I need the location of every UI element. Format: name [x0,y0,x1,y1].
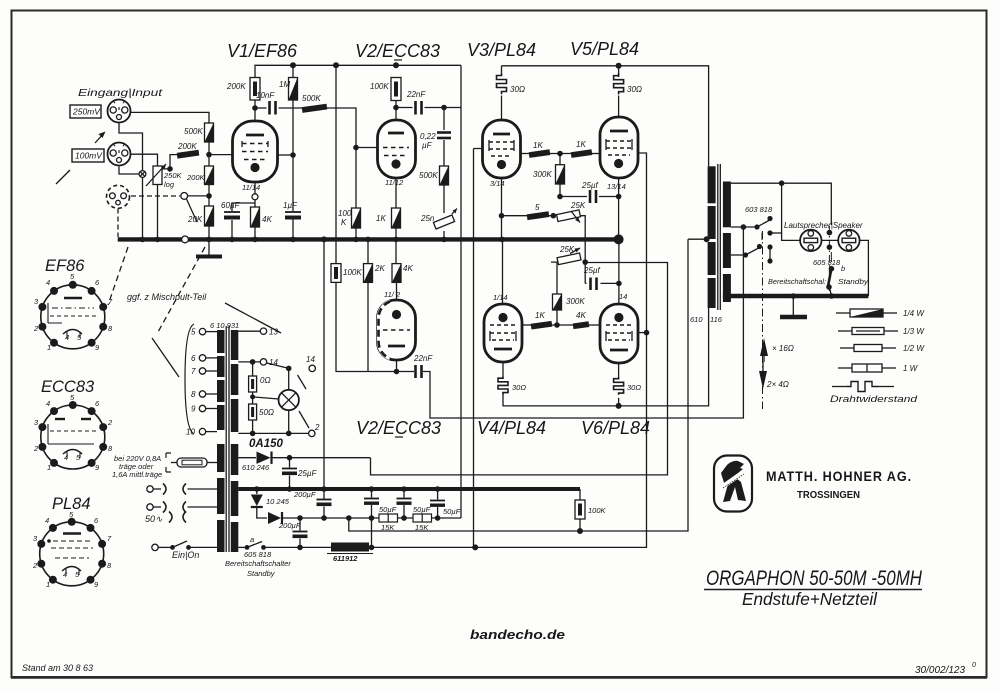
node V2 anode [393,105,399,111]
svg-text:100: 100 [338,209,352,218]
legend one W [838,367,852,369]
node 200uF1 bottom [321,515,327,521]
diode 10245 vertical [256,489,258,494]
potentiometer 250K log [153,166,162,185]
terminal pin 8 [206,393,218,395]
label box 100mV [72,149,104,162]
svg-text:25µF: 25µF [297,469,318,478]
wire 25K no1 out corner x=585 [581,216,585,284]
wire secondary tap3 to switch [731,254,745,256]
wire 25uF no2 row [585,282,586,284]
pin numbers EF86 [33,272,113,352]
wire rectifier OA150 row [238,457,256,459]
svg-text:300K: 300K [533,170,552,179]
svg-text:ggf. z Mischpult-Teil: ggf. z Mischpult-Teil [127,292,207,302]
svg-text:25µf: 25µf [581,181,599,190]
wire grid row to V1 [209,154,233,156]
svg-text:MATTH. HOHNER AG.: MATTH. HOHNER AG. [766,468,912,484]
wire lamp top stem [288,368,290,389]
switch Ein On [152,544,158,550]
node speaker link bottom [827,244,833,250]
svg-text:500K: 500K [184,127,203,136]
svg-text:Drahtwiderstand: Drahtwiderstand [830,394,918,404]
svg-text:Ein|On: Ein|On [172,550,199,560]
svg-text:3/14: 3/14 [490,179,505,188]
svg-text:25K: 25K [559,245,575,254]
power transformer primary windings [217,330,225,353]
output transformer core [717,164,719,310]
tube V5 envelope [600,117,638,178]
svg-text:1µF: 1µF [283,201,298,210]
svg-text:10 245: 10 245 [266,497,290,506]
tube V1 grids [242,143,268,145]
capacitor 200uF no2 [299,518,301,531]
resistor 4K splitter [392,264,401,283]
svg-text:100K: 100K [343,268,362,277]
svg-text:22nF: 22nF [406,90,426,99]
svg-text:2K: 2K [374,264,385,273]
svg-text:50µF: 50µF [413,505,431,514]
tube V2 lower envelope inverted [378,300,416,360]
wire 500K-200K node to V1 grid [208,142,210,166]
wire feedback down column [782,183,801,240]
node V2 grid [353,145,359,151]
wire screen stub [278,154,293,156]
node 200uF2 top [297,515,303,521]
wire V5 plate 30R [618,66,620,77]
svg-text:2: 2 [314,423,320,432]
node heater return [250,431,256,437]
svg-text:6: 6 [191,354,196,363]
wire between speakers [822,239,839,241]
wire V2 anode column [395,101,397,121]
svg-text:4: 4 [45,516,49,525]
legend half W [840,347,854,349]
node feedback takeoff [779,180,785,186]
resistor 500K coupling wedge [302,104,328,113]
resistor 30R V5 [614,73,624,94]
svg-text:6 10 931: 6 10 931 [210,321,239,330]
svg-text:4K: 4K [576,311,586,320]
node screen row [557,151,563,157]
pilot lamp [279,390,299,410]
mains connector row2 [147,504,153,510]
capacitor 50uF c [435,486,441,492]
svg-text:50µF: 50µF [379,505,397,514]
tube V4 cathode dot [498,313,507,322]
tube V4 grids [490,324,516,326]
node standby b bus [829,293,835,299]
svg-text:11/ 2: 11/ 2 [384,290,401,299]
node feedback line join [741,224,747,230]
svg-text:603 818: 603 818 [745,205,773,214]
resistor 30R V6 [614,377,624,395]
wire V6 anode to 30R [618,363,620,377]
svg-text:7: 7 [191,367,196,376]
resistor 500K tone [440,166,449,185]
tube V6 anode bar [610,349,628,352]
svg-text:250mV: 250mV [72,107,101,117]
node bus end V5 cathode [614,234,624,244]
arrow 16 ohm [760,338,768,356]
resistor 50R box [252,392,254,404]
svg-text:10: 10 [186,428,195,437]
wire 2K bias drop x=368 [367,282,369,371]
svg-text:22nF: 22nF [413,354,433,363]
wire speaker right out [860,240,869,296]
arrow input 2 [95,133,104,143]
svg-text:100K: 100K [370,82,389,91]
node 1uF bus [290,237,296,243]
svg-text:TROSSINGEN: TROSSINGEN [797,489,860,501]
capacitor 22nF [414,101,417,115]
terminal pin 5 [206,331,218,333]
wire ground bus main [118,237,619,241]
node heater diode tap [254,486,260,492]
svg-text:V5/PL84: V5/PL84 [570,39,639,59]
node gnd stem [791,293,797,299]
svg-text:50µF: 50µF [443,507,461,516]
svg-text:1/4 W: 1/4 W [903,309,925,318]
legend wirewound [832,386,847,388]
wire OT primary CT feed x=688 [688,238,707,240]
resistor 100K V2 anode box [391,78,401,101]
resistor 4K V6 grid wedge [573,321,590,329]
svg-text:2: 2 [32,561,38,570]
resistor 1K screen V3 wedge [529,149,551,158]
wire 500K out to corner x=356 [327,108,356,148]
potentiometer 25K no1 [557,210,581,222]
terminal pin 10 [206,431,218,433]
svg-text:a: a [250,535,254,544]
svg-text:1K: 1K [535,311,545,320]
mischpult dashed boundary lines [158,247,205,332]
terminal pin 9 [206,408,218,410]
wire heater return row [238,432,308,434]
wire 60uF branch [232,203,255,211]
wire lamp feed [267,363,289,368]
wire PSU ground link x=324 [323,239,325,489]
wire 1uF to bus [292,219,294,239]
node 22nF out [441,105,447,111]
svg-text:4: 4 [46,399,50,408]
wire screen row V3 V5 [521,153,530,155]
svg-text:1M: 1M [279,80,290,89]
speaker connector right [838,230,859,251]
svg-text:Eingang|Input: Eingang|Input [78,87,163,99]
wire splitter loop y=474.9 [371,263,668,475]
node V1 grid [206,152,212,158]
node V5 25uF junction [616,194,622,200]
resistor 1K screen V5 wedge [571,149,593,158]
wire V4 V6 grid row [522,324,532,326]
tube V4 anode bar [494,348,512,351]
svg-text:0A150: 0A150 [249,438,283,450]
svg-text:13/14: 13/14 [607,182,626,191]
svg-text:bandecho.de: bandecho.de [470,627,565,642]
svg-text:1/14: 1/14 [493,293,508,302]
wire bias line y=518 [282,517,461,519]
node lamp top [286,366,292,372]
choke 611912 [331,543,369,552]
svg-text:30Ω: 30Ω [510,85,525,94]
node heater x=475 [472,544,478,550]
node 444 bus [441,237,447,243]
switch 603818 lower [743,252,748,257]
speaker connector left [800,230,821,251]
svg-text:605 818: 605 818 [244,550,272,559]
terminal open 2 [309,430,315,436]
svg-text:V2/ECC83: V2/ECC83 [356,418,441,438]
svg-text:2: 2 [33,324,39,333]
svg-text:11/14: 11/14 [242,183,260,192]
terminal chassis circle [139,171,146,178]
pin labels power transformer [186,328,320,437]
wire divider chain [208,185,210,207]
svg-text:Standby: Standby [247,569,276,578]
tube V1 EF86 envelope [233,121,278,182]
pin numbers ECC83 [33,393,113,472]
svg-text:60µF: 60µF [221,201,241,210]
fuse brackets [166,453,171,472]
switch lever lamp bottom [299,411,309,428]
resistor 200K input divider [205,166,214,185]
svg-text:V6/PL84: V6/PL84 [581,418,650,438]
potentiometer 25K no2 [557,253,581,265]
resistor 1K V2 cathode [392,208,401,228]
resistor 100K box below bus [331,264,341,283]
svg-text:30/002/123: 30/002/123 [915,665,965,676]
node V6 right side stub [644,330,650,336]
wire bus489 end corner to 100K [579,489,581,500]
connector DIN input 1 [108,100,131,123]
svg-text:200K: 200K [186,173,206,182]
wire V3 cathode to bus to V4 [502,178,503,304]
svg-text:300K: 300K [566,297,585,306]
node V3V4 bus [499,237,505,243]
wire 4K to lower V2 cathode [396,282,398,300]
svg-text:1: 1 [47,463,51,472]
svg-text:V3/PL84: V3/PL84 [467,40,536,60]
svg-text:200µF: 200µF [293,490,316,499]
tube V2l anode bar [388,345,405,348]
capacitor 60uF [224,211,240,213]
wire 22nF out short link [444,107,461,109]
node shield bus [140,237,146,243]
dashdot link speakers [828,226,830,292]
wire secondary tap2 to switch [731,226,757,228]
svg-text:500K: 500K [302,94,321,103]
terminal open 14 right [309,365,315,371]
resistor 30R V4 [498,377,508,395]
svg-text:1: 1 [46,580,50,589]
wire V6 grid feed x=646 [475,153,646,547]
wire 4K below bus [395,239,397,263]
hohner logo bird [721,461,744,483]
hohner logo frame [714,456,752,512]
wire 100K drop x=356 [355,148,357,209]
svg-text:25n: 25n [420,214,435,223]
terminal pin 7 [206,370,218,372]
resistor 100K screen supply box [575,500,585,519]
ground speaker [792,296,794,315]
wire grid stub V2 [356,147,378,149]
arrow 4 ohm [759,371,767,389]
fuse holder [177,458,207,467]
power transformer secondary windings [231,330,239,360]
svg-text:Bereitschaftschal:: Bereitschaftschal: [768,277,826,286]
wire V1 anode node [254,100,256,121]
svg-text:610 246: 610 246 [242,463,270,472]
svg-text:200µF: 200µF [278,521,301,530]
capacitor 200uF no1 [317,499,332,501]
svg-text:610: 610 [690,315,703,324]
node B+ filter takeoff [346,515,352,521]
svg-text:14: 14 [269,358,278,367]
svg-text:2: 2 [33,444,39,453]
wire heater line to PSU [369,546,475,548]
wire OA150 out [272,457,371,459]
node grid V1 divider [206,193,212,199]
tube socket EF86 [38,281,107,349]
mains connector row3 arcs [169,512,186,523]
tube V3 cathode dot [497,160,506,169]
svg-text:1/2 W: 1/2 W [903,344,925,353]
wire V3 plate 30R [501,66,503,73]
resistor 0R box [252,362,254,376]
svg-text:1/3 W: 1/3 W [903,327,925,336]
svg-text:1K: 1K [533,141,543,150]
svg-text:1K: 1K [376,214,386,223]
svg-text:605 818: 605 818 [813,258,841,267]
svg-text:× 16Ω: × 16Ω [772,344,794,353]
svg-text:4: 4 [46,278,50,287]
svg-text:Stand am 30 8 63: Stand am 30 8 63 [22,663,93,673]
wire 022uF chain x=444 [443,108,445,131]
wire PSU ground bus [238,487,580,491]
svg-text:V2/ECC83: V2/ECC83 [355,41,440,61]
wire DIN3 dashed row [131,195,180,197]
node 25uF ps [287,455,293,461]
resistor 5R wedge [527,211,550,220]
node pot bus [155,237,161,243]
svg-text:0,22: 0,22 [420,132,436,141]
mischpult pointer line [225,303,281,333]
terminal cathode ring [252,194,258,200]
node 20K bus [206,237,212,243]
node lower V2 anode [394,369,400,375]
node pot wiper [167,166,173,172]
tube V2u cathode dot [391,159,400,168]
wire DIN2 shield [119,167,143,175]
svg-text:116: 116 [710,315,723,324]
wire input DIN1 to 500K [131,112,209,123]
wire V5 cathode down through bus to V6 [618,178,620,304]
resistor 2K [364,264,373,283]
label box 250mV [70,105,101,118]
svg-text:4: 4 [64,453,68,462]
wire 10nF leads [255,107,267,109]
switch lever lamp top [298,375,307,389]
svg-text:30Ω: 30Ω [512,383,526,392]
capacitor 10nF [268,101,271,115]
wire lower V2 bottom [396,360,398,372]
svg-text:ORGAPHON 50-50M -50MH: ORGAPHON 50-50M -50MH [706,567,923,590]
switch lever input select [187,199,198,222]
wire speaker ground bus [723,294,869,298]
capacitor 25uF ps [289,458,291,468]
node 60uF bus [229,237,235,243]
wire V4 anode to 30R [502,362,504,377]
mains connector row1 [147,486,153,492]
svg-text:611912: 611912 [333,554,358,563]
node V6 anode [616,403,622,409]
svg-text:30Ω: 30Ω [627,383,641,392]
svg-text:20K: 20K [187,215,203,224]
wire DIN2 to pot [131,154,158,166]
wire DIN3 shield dashed [117,209,119,238]
svg-text:15K: 15K [381,523,395,532]
svg-text:2: 2 [107,418,113,427]
svg-text:1: 1 [47,343,51,352]
wire anode line V4 V6 to OT primary bottom [503,308,709,406]
wire 20K to bus [208,226,210,239]
svg-text:ECC83: ECC83 [41,378,95,396]
wire V6 right stub [639,332,647,334]
legend third W [838,330,852,332]
switch 603818 upper [754,224,759,229]
node 25uF gnd [287,486,293,492]
svg-text:14: 14 [306,355,315,364]
tube V2u grid [383,147,409,149]
wire secondary top tap [731,183,831,225]
node rail V2 [393,62,399,68]
svg-text:Lautsprecher|Speaker: Lautsprecher|Speaker [784,221,863,230]
wire 5ohm row [502,215,528,217]
svg-text:K: K [341,218,347,227]
svg-text:250K: 250K [163,171,183,180]
wire 25uF no1 row [560,196,587,198]
node rail V5 [616,63,622,69]
svg-text:Standby: Standby [838,277,869,286]
diode 10245 horizontal [268,512,281,524]
node heater tap [250,359,256,365]
svg-text:Endstufe+Netzteil: Endstufe+Netzteil [742,589,878,609]
svg-text:10nF: 10nF [256,91,275,100]
potentiometer 25n [433,215,454,229]
svg-text:200K: 200K [226,82,246,91]
tube V3 grids [489,141,514,143]
node x356 bus [353,237,359,243]
wire x=336 100K to lower V2 anode line [336,282,368,371]
wire V3 grid coupling vertical x=473 [473,149,475,548]
connector DIN 3 dashed [107,185,130,208]
tube V2 upper envelope [378,120,416,178]
node rail 1M [290,62,296,68]
svg-text:200K: 200K [177,142,197,151]
svg-text:1K: 1K [576,140,586,149]
wire lamp mid tap [253,397,279,399]
svg-text:500K: 500K [419,171,438,180]
svg-text:b: b [841,264,845,273]
resistor 20K input divider [205,206,214,226]
tube V4 envelope inverted [484,304,522,362]
wire top B+ rail preamp [255,65,461,77]
resistor 15K a [379,514,398,522]
svg-text:25K: 25K [570,201,586,210]
switch 605818a standby [245,545,250,550]
tube V3 anode bar [493,133,510,136]
